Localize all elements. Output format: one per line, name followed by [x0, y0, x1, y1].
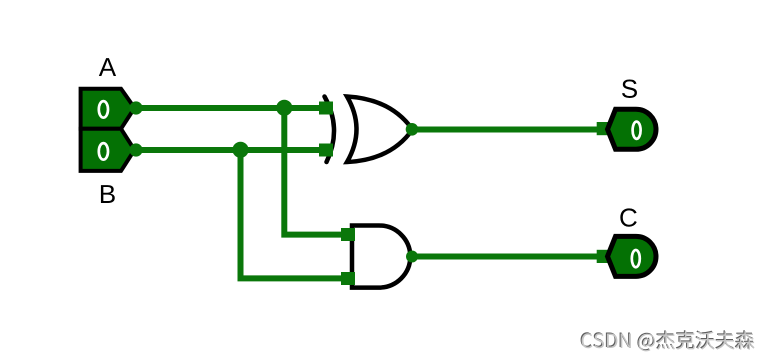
junction node on wire B: [232, 142, 248, 158]
label C: [620, 208, 636, 226]
junction node on wire A: [276, 100, 292, 116]
xor gate U1 body: [347, 97, 413, 163]
output C shape: [608, 236, 657, 276]
input B pin terminal dot: [129, 143, 142, 156]
wire branch A vertical to AND top input: [284, 108, 348, 235]
watermark CSDN highlight: [583, 332, 756, 352]
and input terminal bottom: [341, 272, 355, 285]
watermark CSDN text: [582, 331, 755, 351]
xor gate U1 extra input arc: [325, 97, 335, 163]
and input terminal top: [341, 228, 355, 241]
wire branch B vertical to AND bottom input: [241, 150, 349, 278]
wire AND output to C: [412, 254, 604, 260]
label S: [622, 80, 637, 98]
input B box: [81, 129, 135, 171]
wire XOR output to S: [412, 127, 604, 133]
input B value 0: [99, 143, 108, 160]
input A pin terminal dot: [129, 101, 142, 114]
wire A horizontal: [133, 105, 326, 111]
input A value 0: [99, 101, 108, 118]
label B: [101, 185, 115, 203]
output S terminal square: [597, 122, 609, 135]
watermark CSDN shadow: [581, 330, 754, 350]
wire B horizontal: [133, 147, 326, 153]
output S shape: [608, 109, 657, 149]
xor input terminal top: [319, 102, 333, 115]
output S value 0: [633, 122, 641, 139]
output C terminal square: [597, 250, 609, 263]
xor output node dot: [406, 123, 419, 136]
and gate U2 body: [352, 226, 410, 288]
and output node dot: [406, 251, 418, 263]
output C value 0: [632, 250, 640, 267]
input A box: [81, 89, 135, 129]
xor input terminal bottom: [319, 144, 333, 157]
label A: [99, 58, 116, 76]
